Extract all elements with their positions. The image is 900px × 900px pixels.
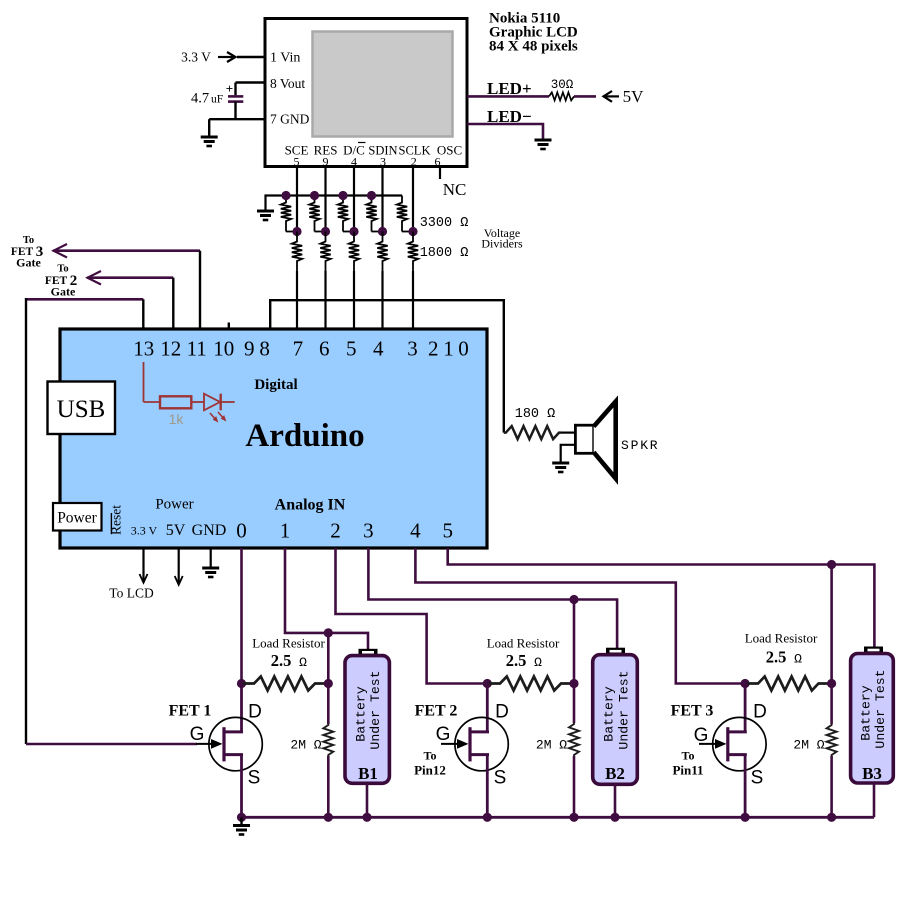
label Load Resistor 1 bbox=[252, 636, 325, 651]
svg-text:11: 11 bbox=[187, 337, 207, 361]
label G FET3 bbox=[694, 725, 709, 746]
LCD pin label 7 GND bbox=[270, 112, 310, 127]
svg-text:84 X 48 pixels: 84 X 48 pixels bbox=[489, 39, 578, 55]
LCD pin number 3 bbox=[380, 155, 386, 169]
power connector box bbox=[53, 503, 102, 531]
wire analog2 to FET2 drain bbox=[336, 548, 488, 684]
label B2 bbox=[605, 764, 625, 783]
svg-text:1 Vin: 1 Vin bbox=[270, 51, 300, 66]
label Load Resistor 3 bbox=[745, 631, 818, 646]
resistor 3300 ohm #3 bbox=[338, 196, 354, 232]
label 5V bbox=[623, 87, 645, 106]
label + polarity bbox=[226, 81, 233, 96]
junction bus dot #4 bbox=[367, 191, 376, 200]
junction bus dot #3 bbox=[338, 191, 347, 200]
arrowhead FET3 gate bbox=[54, 244, 68, 258]
svg-text:OSC: OSC bbox=[437, 143, 462, 158]
svg-text:0: 0 bbox=[458, 337, 469, 361]
ground arduino GND bbox=[202, 568, 219, 577]
arduino digital pin numbers bbox=[133, 337, 468, 361]
svg-text:B2: B2 bbox=[605, 764, 625, 783]
junction dot B1 sense bbox=[324, 628, 333, 637]
svg-text:5V: 5V bbox=[166, 522, 186, 539]
svg-text:D: D bbox=[753, 702, 767, 723]
LCD pin number 6 bbox=[435, 155, 441, 169]
battery B1 body bbox=[345, 656, 389, 784]
svg-text:GND: GND bbox=[192, 522, 227, 539]
svg-text:7: 7 bbox=[293, 337, 304, 361]
wire LED+ bbox=[467, 95, 549, 98]
wire analog0 to FET1 drain bbox=[240, 548, 243, 684]
resistor 3300 ohm #2 bbox=[309, 196, 325, 232]
wire pin13 horizontal bbox=[26, 298, 143, 301]
wire analog1 to B1 sense bbox=[285, 548, 368, 649]
junction divider node dot #2 bbox=[321, 227, 330, 236]
svg-text:2: 2 bbox=[428, 337, 439, 361]
resistor 1800 ohm #3 bbox=[349, 232, 359, 272]
arrow 3.3V to LCD bbox=[140, 548, 148, 583]
wire OSC stub bbox=[439, 167, 441, 180]
svg-text:G: G bbox=[190, 724, 205, 745]
svg-text:Load Resistor: Load Resistor bbox=[487, 636, 560, 651]
svg-text:5V: 5V bbox=[623, 87, 645, 106]
svg-text:3.3 V: 3.3 V bbox=[181, 50, 211, 65]
arrow into Vin bbox=[218, 52, 236, 62]
FET3 source lead bbox=[744, 755, 747, 818]
label LED- bbox=[487, 107, 532, 126]
wire B2 sense down bbox=[573, 600, 576, 724]
resistor 3300 ohm #5 bbox=[397, 196, 413, 232]
resistor 1800 ohm #4 bbox=[377, 232, 387, 272]
label 3.3V bbox=[181, 50, 211, 65]
svg-text:To: To bbox=[682, 749, 695, 763]
transistor FET1 body bbox=[209, 717, 262, 770]
svg-text:uF: uF bbox=[211, 94, 223, 106]
svg-text:FET 1: FET 1 bbox=[169, 703, 212, 720]
label G FET1 bbox=[190, 724, 205, 745]
wire B3 sense down bbox=[830, 565, 833, 725]
svg-text:5: 5 bbox=[346, 337, 357, 361]
wire Vin bbox=[237, 56, 265, 58]
label 2.5ohm 2 bbox=[506, 651, 542, 670]
junction divider node dot #4 bbox=[378, 227, 387, 236]
wire pin11 to FET3 gate bbox=[53, 249, 200, 252]
FET2 source lead bbox=[486, 755, 489, 818]
svg-text:FET 3: FET 3 bbox=[671, 703, 714, 720]
resistor 1800 ohm #2 bbox=[320, 232, 330, 272]
wire LED+ right bbox=[574, 95, 596, 98]
wire divider ground bus bbox=[266, 196, 403, 211]
wire LED- bbox=[467, 124, 543, 139]
svg-text:Gate: Gate bbox=[51, 285, 76, 299]
junction dot B2 sense bbox=[569, 595, 578, 604]
resistor 2M #1 bbox=[323, 724, 333, 756]
svg-text:NC: NC bbox=[443, 180, 467, 199]
label SPKR bbox=[621, 438, 659, 453]
svg-text:4: 4 bbox=[410, 519, 421, 543]
wire LCD pin line 2 bbox=[324, 167, 326, 232]
transistor FET3 body bbox=[713, 717, 766, 770]
LCD pin label 1 Vin bbox=[270, 51, 300, 66]
svg-text:180 Ω: 180 Ω bbox=[515, 407, 556, 422]
svg-text:3: 3 bbox=[407, 337, 418, 361]
svg-text:1800 Ω: 1800 Ω bbox=[420, 246, 469, 261]
svg-text:G: G bbox=[694, 725, 709, 746]
arduino board box bbox=[60, 329, 487, 548]
battery B2 terminal bbox=[606, 648, 625, 655]
resistor 1800 ohm #1 bbox=[292, 232, 302, 272]
svg-text:D: D bbox=[495, 702, 509, 723]
label 2M #1 bbox=[290, 738, 321, 753]
svg-text:S: S bbox=[751, 768, 764, 789]
label Reset bbox=[109, 505, 124, 535]
LCD pin label D/C bbox=[343, 143, 365, 158]
battery B3 terminal bbox=[864, 647, 883, 654]
svg-text:10: 10 bbox=[213, 337, 234, 361]
svg-text:2.5: 2.5 bbox=[766, 648, 787, 667]
LCD pin label SCE bbox=[285, 143, 309, 158]
ground cap bbox=[201, 137, 218, 146]
speaker SPKR driver box bbox=[575, 425, 593, 453]
svg-text:4: 4 bbox=[351, 155, 357, 169]
label FET 2 bbox=[415, 703, 458, 720]
wire B2 bottom bbox=[614, 784, 617, 817]
wire pin12 to FET2 gate bbox=[87, 276, 173, 279]
svg-text:Gate: Gate bbox=[16, 256, 41, 270]
ground bus symbol bbox=[233, 818, 250, 835]
junction bus dot #2 bbox=[310, 191, 319, 200]
battery B2 body bbox=[593, 655, 638, 785]
svg-text:Analog IN: Analog IN bbox=[275, 497, 346, 514]
wire pin10 stub bbox=[228, 323, 230, 331]
wire B3 sense to bus bbox=[830, 756, 833, 817]
resistor R-led 1k bbox=[160, 396, 191, 408]
svg-text:4.7: 4.7 bbox=[191, 91, 209, 107]
wire analog4 to FET3 drain bbox=[415, 548, 745, 684]
wire after resistor bbox=[191, 401, 204, 403]
label Analog IN bbox=[275, 497, 346, 514]
wire analog5 to B3 sense bbox=[448, 548, 875, 648]
junction dot load R3 right bbox=[827, 679, 836, 688]
wire to speaker bbox=[561, 432, 575, 434]
LCD pin number 5 bbox=[294, 155, 300, 169]
label D FET3 bbox=[753, 702, 767, 723]
FET2 drain lead bbox=[486, 684, 489, 732]
wire pin12 stub bbox=[172, 278, 174, 330]
svg-text:1k: 1k bbox=[169, 411, 185, 427]
svg-text:B1: B1 bbox=[358, 764, 378, 783]
svg-text:FET 2: FET 2 bbox=[415, 703, 458, 720]
battery B3 text bbox=[858, 669, 888, 748]
label S FET2 bbox=[494, 768, 507, 789]
label 3300 ohm bbox=[420, 216, 469, 231]
LCD pin label RES bbox=[314, 143, 338, 158]
resistor load R3 2.5ohm bbox=[747, 677, 830, 691]
transistor FET1 internals bbox=[224, 727, 243, 761]
svg-text:2M Ω: 2M Ω bbox=[290, 738, 321, 753]
svg-text:0: 0 bbox=[236, 519, 247, 543]
svg-text:Pin12: Pin12 bbox=[414, 763, 446, 778]
label LED+ bbox=[487, 79, 532, 98]
USB connector box bbox=[48, 382, 116, 435]
transistor FET2 internals bbox=[470, 727, 489, 761]
LCD pin label SCLK bbox=[399, 144, 431, 158]
svg-text:8: 8 bbox=[259, 337, 270, 361]
svg-text:D: D bbox=[248, 702, 262, 723]
capacitor C1 4.7uF plates bbox=[228, 96, 243, 101]
wire to arduino pin 3 bbox=[353, 271, 355, 330]
label To LCD bbox=[109, 586, 154, 601]
arduino analog pin numbers bbox=[236, 519, 453, 543]
svg-text:2: 2 bbox=[411, 155, 417, 169]
svg-text:30Ω: 30Ω bbox=[551, 78, 574, 92]
label Nokia 5110 Graphic LCD 84x48 bbox=[489, 11, 578, 55]
label 4.7uF bbox=[191, 91, 223, 107]
wire LCD pin line 4 bbox=[381, 167, 383, 232]
wire to arduino pin 4 bbox=[381, 271, 383, 330]
wire GND pin down bbox=[210, 548, 212, 567]
junction dot load R2 right bbox=[569, 679, 578, 688]
svg-text:Ω: Ω bbox=[534, 655, 542, 670]
svg-text:Under Test: Under Test bbox=[873, 669, 888, 748]
label FET 1 bbox=[169, 703, 212, 720]
svg-text:USB: USB bbox=[57, 396, 106, 423]
junction bus dot #1 bbox=[281, 191, 290, 200]
svg-text:9: 9 bbox=[323, 155, 329, 169]
svg-text:+: + bbox=[226, 81, 233, 96]
LCD pin number 4 bbox=[351, 155, 357, 169]
FET3 drain lead bbox=[744, 684, 747, 732]
svg-text:7 GND: 7 GND bbox=[270, 112, 310, 127]
transistor FET2 body bbox=[455, 717, 508, 770]
wire cap bottom lead bbox=[234, 102, 236, 120]
svg-text:Under Test: Under Test bbox=[368, 670, 383, 749]
wire analog3 to B2 sense bbox=[368, 548, 617, 649]
label 1800 ohm bbox=[420, 246, 469, 261]
resistor R-backlight 30ohm bbox=[549, 92, 574, 100]
wire ground bus bbox=[242, 816, 875, 819]
junction dot bus B2 bottom bbox=[610, 813, 619, 822]
svg-text:5: 5 bbox=[294, 155, 300, 169]
svg-text:Digital: Digital bbox=[254, 377, 297, 393]
svg-text:To: To bbox=[424, 749, 437, 763]
label 2.5ohm 3 bbox=[766, 648, 802, 667]
label S FET3 bbox=[751, 768, 764, 789]
resistor 3300 ohm #4 bbox=[366, 196, 382, 232]
resistor load R2 2.5ohm bbox=[489, 677, 572, 691]
wire pin13 internal bbox=[144, 362, 161, 402]
svg-text:To LCD: To LCD bbox=[109, 586, 154, 601]
ground divider bus bbox=[257, 211, 274, 220]
LCD pin label OSC bbox=[437, 143, 462, 158]
wire pin11 stub bbox=[199, 251, 201, 330]
LCD pin number 2 bbox=[411, 155, 417, 169]
wire pin13 down left side bbox=[25, 298, 27, 744]
svg-text:2.5: 2.5 bbox=[271, 651, 292, 670]
svg-text:Ω: Ω bbox=[299, 655, 307, 670]
LED D1 bbox=[204, 394, 235, 411]
svg-text:Load Resistor: Load Resistor bbox=[745, 631, 818, 646]
arrowhead FET2 gate bbox=[88, 271, 102, 285]
svg-text:Power: Power bbox=[57, 510, 97, 527]
label G FET2 bbox=[436, 724, 451, 745]
svg-text:2: 2 bbox=[330, 519, 341, 543]
label To Pin12 bbox=[414, 749, 446, 778]
svg-text:3.3 V: 3.3 V bbox=[131, 524, 158, 538]
svg-text:Battery: Battery bbox=[354, 686, 369, 741]
resistor R-spkr 180 ohm bbox=[504, 426, 561, 439]
label To FET3 Gate bbox=[11, 235, 43, 270]
svg-text:Power: Power bbox=[155, 497, 193, 513]
wire B1 sense down bbox=[327, 633, 330, 724]
svg-text:5: 5 bbox=[442, 519, 453, 543]
junction divider node dot #5 bbox=[408, 227, 417, 236]
wire LCD pin line 1 bbox=[296, 167, 298, 232]
label 2.5ohm 1 bbox=[271, 651, 307, 670]
battery B1 terminal bbox=[359, 649, 378, 656]
wire B3 bottom bbox=[873, 783, 876, 817]
arrow from 5V bbox=[603, 91, 619, 102]
LCD pin label 8 Vout bbox=[270, 76, 305, 91]
svg-text:Battery: Battery bbox=[602, 686, 617, 741]
wire B1 sense to bus bbox=[327, 756, 330, 817]
LCD pin label SDIN bbox=[368, 144, 397, 158]
svg-text:1: 1 bbox=[280, 519, 291, 543]
junction divider node dot #3 bbox=[349, 227, 358, 236]
svg-text:6: 6 bbox=[435, 155, 441, 169]
FET1 source lead bbox=[240, 755, 243, 818]
svg-text:S: S bbox=[494, 768, 507, 789]
label B1 bbox=[358, 764, 378, 783]
wire B1 bottom bbox=[366, 783, 369, 817]
label 2M #2 bbox=[536, 738, 567, 753]
svg-text:1: 1 bbox=[443, 337, 454, 361]
LED arrows bbox=[210, 412, 226, 422]
label 3.3V pin bbox=[131, 524, 158, 538]
wire cap top lead bbox=[234, 83, 236, 96]
label NC bbox=[443, 180, 467, 199]
resistor 1800 ohm #5 bbox=[408, 232, 418, 272]
LCD pin number 9 bbox=[323, 155, 329, 169]
svg-text:B3: B3 bbox=[862, 764, 882, 783]
wire to arduino pin 5 bbox=[412, 271, 414, 330]
FET2 gate arrow bbox=[441, 739, 469, 749]
label Power box bbox=[57, 510, 97, 527]
label Arduino bbox=[245, 418, 364, 454]
junction dot FET2 drain bbox=[483, 679, 492, 688]
svg-text:To: To bbox=[57, 264, 68, 275]
junction dot bus FET1 source bbox=[237, 813, 246, 822]
battery B1 text bbox=[354, 670, 384, 749]
wire to arduino pin 2 bbox=[324, 271, 326, 330]
resistor load R1 2.5ohm bbox=[243, 677, 326, 691]
junction dot bus B3 sense bbox=[827, 813, 836, 822]
label GND pin bbox=[192, 522, 227, 539]
battery B3 body bbox=[851, 654, 894, 784]
label 1k bbox=[169, 411, 185, 427]
wire B2 sense to bus bbox=[573, 756, 576, 817]
junction dot B3 sense bbox=[827, 560, 836, 569]
wire speaker ground lead bbox=[561, 445, 576, 462]
svg-text:Pin11: Pin11 bbox=[672, 763, 703, 778]
junction dot bus B1 bottom bbox=[362, 813, 371, 822]
svg-text:Battery: Battery bbox=[858, 685, 873, 740]
svg-text:2M Ω: 2M Ω bbox=[793, 738, 824, 753]
resistor 2M #3 bbox=[827, 724, 837, 756]
svg-text:3: 3 bbox=[380, 155, 386, 169]
ground LED- bbox=[535, 140, 552, 149]
wire to ground bbox=[208, 119, 210, 136]
svg-text:6: 6 bbox=[319, 337, 330, 361]
svg-text:Load Resistor: Load Resistor bbox=[252, 636, 325, 651]
label Load Resistor 2 bbox=[487, 636, 560, 651]
svg-text:9: 9 bbox=[244, 337, 255, 361]
svg-text:S: S bbox=[248, 768, 261, 789]
label voltage dividers bbox=[481, 226, 523, 251]
label FET 3 bbox=[671, 703, 714, 720]
label S FET1 bbox=[248, 768, 261, 789]
svg-text:SPKR: SPKR bbox=[621, 438, 659, 453]
svg-text:Arduino: Arduino bbox=[245, 418, 364, 454]
wire to arduino pin 1 bbox=[296, 271, 298, 330]
LCD screen bbox=[313, 32, 453, 137]
label 5V pin bbox=[166, 522, 186, 539]
wire pin13 stub bbox=[142, 299, 144, 330]
wire LCD pin line 5 bbox=[412, 167, 414, 232]
svg-text:13: 13 bbox=[133, 337, 154, 361]
label To Pin11 bbox=[672, 749, 703, 778]
junction dot bus FET3 source bbox=[741, 813, 750, 822]
svg-text:2M Ω: 2M Ω bbox=[536, 738, 567, 753]
svg-text:12: 12 bbox=[160, 337, 181, 361]
svg-text:3: 3 bbox=[363, 519, 374, 543]
arrow 5V to LCD bbox=[175, 548, 183, 585]
FET3 gate arrow bbox=[699, 739, 727, 749]
resistor 2M #2 bbox=[569, 723, 579, 756]
junction divider node dot #1 bbox=[292, 227, 301, 236]
FET1 drain lead bbox=[240, 684, 243, 732]
svg-text:3300 Ω: 3300 Ω bbox=[420, 216, 469, 231]
label Power header bbox=[155, 497, 193, 513]
junction dot bus B2 sense bbox=[569, 813, 578, 822]
junction dot bus B1 sense bbox=[324, 813, 333, 822]
svg-text:2.5: 2.5 bbox=[506, 651, 527, 670]
wire FET1 gate bbox=[26, 743, 197, 746]
LCD module U1 Nokia 5110 body bbox=[265, 19, 467, 167]
svg-text:8 Vout: 8 Vout bbox=[270, 76, 305, 91]
junction dot FET3 drain bbox=[741, 679, 750, 688]
svg-text:Dividers: Dividers bbox=[481, 237, 523, 251]
svg-text:To: To bbox=[23, 235, 34, 246]
svg-text:Ω: Ω bbox=[794, 652, 802, 667]
transistor FET3 internals bbox=[728, 727, 747, 761]
junction dot load R1 right bbox=[324, 679, 333, 688]
junction dot FET1 drain bbox=[237, 679, 246, 688]
svg-text:G: G bbox=[436, 724, 451, 745]
wire Vout bbox=[236, 81, 266, 83]
FET1 gate arrow bbox=[196, 739, 223, 749]
label B3 bbox=[862, 764, 882, 783]
junction dot bus FET2 source bbox=[483, 813, 492, 822]
battery B2 text bbox=[602, 670, 632, 749]
label D FET2 bbox=[495, 702, 509, 723]
ground speaker bbox=[552, 463, 569, 472]
label D FET1 bbox=[248, 702, 262, 723]
wire GND pin bbox=[209, 118, 265, 120]
label 30ohm bbox=[551, 78, 574, 92]
label 2M #3 bbox=[793, 738, 824, 753]
label Digital bbox=[254, 377, 297, 393]
